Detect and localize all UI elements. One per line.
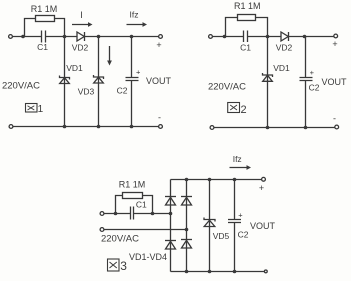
label VD1-VD4 — [129, 252, 167, 262]
node c1n — [97, 35, 101, 39]
svg-text:C2: C2 — [238, 230, 249, 240]
label fig2 — [228, 103, 247, 117]
node b1 — [63, 35, 67, 39]
node t3 fig3 — [233, 178, 237, 182]
label VD5 — [213, 231, 230, 241]
svg-text:VOUT: VOUT — [146, 76, 172, 86]
svg-text:C2: C2 — [309, 83, 320, 93]
label fig3 — [108, 259, 128, 273]
label plus C2 fig2 — [310, 68, 315, 77]
svg-text:220V/AC: 220V/AC — [101, 233, 139, 244]
node e1 — [63, 125, 67, 129]
wire top rail c1 — [13, 36, 159, 38]
label plus C2 — [136, 68, 141, 77]
node ra3 — [114, 212, 118, 216]
terminal bottom-left 2 — [210, 126, 214, 130]
node u3 fig3 — [233, 270, 237, 274]
label C1 fig3 — [136, 200, 147, 210]
label C2 fig2 — [309, 83, 320, 93]
label 220V/AC — [2, 81, 40, 92]
wire VD3 branch — [98, 37, 100, 127]
label C1 — [37, 42, 48, 52]
svg-text:1: 1 — [38, 104, 44, 115]
svg-text:220V/AC: 220V/AC — [2, 81, 40, 92]
svg-text:C1: C1 — [37, 42, 48, 52]
label minus 2 — [333, 114, 336, 124]
node e2 — [266, 126, 270, 130]
svg-text:VD5: VD5 — [213, 231, 230, 241]
label R1 1M fig2 — [234, 1, 261, 11]
arrow Ifz fig3 — [230, 165, 252, 170]
node u2 fig3 — [208, 270, 212, 274]
svg-text:VOUT: VOUT — [321, 77, 347, 87]
wire bridge right column — [186, 180, 188, 272]
label VD1 — [66, 63, 83, 73]
diode VD1 bridge upper-left — [165, 197, 176, 206]
label R1 1M fig3 — [119, 180, 146, 190]
resistor R1 fig3 — [123, 193, 143, 199]
svg-text:+: + — [136, 68, 141, 77]
svg-text:+: + — [310, 68, 315, 77]
diode VD2 fig2 — [281, 32, 289, 41]
svg-text:-: - — [158, 113, 161, 123]
label C2 — [117, 86, 128, 96]
diode VD2 — [77, 32, 85, 41]
node f1 — [97, 125, 101, 129]
label VD2 — [72, 43, 89, 53]
capacitor C2 polarized fig3 — [228, 180, 241, 272]
resistor R1 fig2 — [238, 15, 256, 21]
label fig1 — [26, 104, 44, 116]
svg-text:C2: C2 — [117, 86, 128, 96]
wire resistor branch 1 — [25, 19, 65, 37]
svg-text:Ifz: Ifz — [233, 154, 242, 164]
svg-text:VD1: VD1 — [273, 63, 290, 73]
label VD2 fig2 — [276, 43, 293, 53]
label plus 1 — [156, 40, 161, 50]
capacitor C2 polarized — [126, 37, 139, 127]
wire AC line a fig3 — [104, 213, 170, 215]
label Ifz fig3 — [233, 154, 242, 164]
wire bridge left column — [170, 180, 172, 272]
label R1 1M — [31, 4, 58, 14]
wire VD1 branch — [64, 37, 66, 127]
svg-text:R1 1M: R1 1M — [234, 1, 261, 11]
node rb3 — [151, 212, 155, 216]
label 220V/AC fig2 — [208, 81, 246, 92]
wire resistor branch 2 — [226, 18, 268, 37]
capacitor C2 polarized fig2 — [300, 37, 313, 128]
terminal AC input top-left 2 — [209, 35, 213, 39]
node a2 — [223, 35, 227, 39]
node b2 — [266, 35, 270, 39]
wire bottom rail fig3 — [171, 271, 265, 273]
arrow current down — [107, 46, 112, 66]
label plus C2 fig3 — [238, 211, 243, 220]
svg-text:+: + — [332, 39, 337, 49]
label VOUT fig3 — [250, 221, 276, 231]
svg-text:+: + — [238, 211, 243, 220]
zener VD1 — [60, 76, 70, 84]
svg-text:-: - — [333, 114, 336, 124]
node bridge left mid — [169, 212, 173, 216]
wire AC line b fig3 — [104, 229, 186, 231]
terminal AC input top-left — [9, 35, 13, 39]
diode VD2 bridge upper-right — [181, 197, 192, 206]
svg-text:VD1: VD1 — [66, 63, 83, 73]
label C1 fig2 — [240, 43, 251, 53]
zener VD3 — [94, 75, 104, 83]
svg-text:C1: C1 — [136, 200, 147, 210]
svg-text:I: I — [80, 10, 83, 20]
wire top rail c2 — [213, 36, 334, 38]
resistor R1 — [36, 16, 55, 22]
wire resistor branch 3 — [116, 196, 153, 214]
label VOUT fig2 — [321, 77, 347, 87]
zener VD1 fig2 — [263, 73, 273, 81]
svg-text:R1 1M: R1 1M — [119, 180, 146, 190]
label C2 fig3 — [238, 230, 249, 240]
wire VD1 branch 2 — [267, 37, 269, 128]
svg-text:+: + — [259, 183, 264, 193]
label VD3 — [78, 87, 95, 97]
wire bottom rail 1 — [13, 126, 158, 128]
node u1 fig3 — [185, 270, 189, 274]
node f2 — [304, 126, 308, 130]
node a1 — [21, 35, 25, 39]
label VD1 fig2 — [273, 63, 290, 73]
capacitor C1 fig3 — [131, 207, 134, 220]
label 220V/AC fig3 — [101, 233, 139, 244]
capacitor C1 fig2 — [244, 31, 248, 43]
label Ifz — [130, 10, 139, 20]
svg-text:2: 2 — [241, 104, 247, 116]
label VOUT — [146, 76, 172, 86]
terminal bottom-left 1 — [9, 125, 13, 129]
node c2n — [303, 35, 307, 39]
terminal AC input b fig3 — [100, 228, 104, 232]
label plus 2 — [332, 39, 337, 49]
arrow Ifz — [127, 22, 148, 27]
svg-text:R1 1M: R1 1M — [31, 4, 58, 14]
node bridge right mid — [185, 228, 189, 232]
node t1 fig3 — [185, 178, 189, 182]
svg-text:3: 3 — [120, 259, 127, 273]
wire bottom rail 2 — [214, 127, 335, 129]
label I — [80, 10, 83, 20]
zener VD5 — [204, 218, 215, 227]
svg-text:VOUT: VOUT — [250, 221, 276, 231]
svg-text:VD1-VD4: VD1-VD4 — [129, 252, 167, 262]
terminal output minus 2 — [335, 125, 339, 129]
terminal output plus fig3 — [262, 177, 266, 181]
terminal output minus fig3 — [264, 270, 267, 273]
node t2 fig3 — [208, 178, 212, 182]
wire top rail fig3 — [171, 179, 262, 181]
terminal output plus 1 — [159, 35, 163, 39]
label minus 1 — [158, 113, 161, 123]
arrow I — [72, 22, 93, 27]
terminal output plus 2 — [334, 34, 338, 38]
svg-text:Ifz: Ifz — [130, 10, 139, 20]
svg-text:VD2: VD2 — [72, 43, 89, 53]
node d1 — [130, 35, 134, 39]
svg-text:220V/AC: 220V/AC — [208, 81, 246, 92]
wire VD5 branch — [209, 180, 211, 272]
node g1 — [130, 125, 134, 129]
svg-text:VD2: VD2 — [276, 43, 293, 53]
terminal AC input a fig3 — [100, 212, 104, 216]
terminal output minus 1 — [159, 125, 163, 129]
svg-text:C1: C1 — [240, 43, 251, 53]
diode VD4 bridge lower-right — [181, 240, 192, 249]
capacitor C1 — [42, 31, 46, 43]
svg-text:+: + — [156, 40, 161, 50]
label plus fig3 — [259, 183, 264, 193]
diode VD3 bridge lower-left — [165, 241, 176, 250]
svg-text:VD3: VD3 — [78, 87, 95, 97]
